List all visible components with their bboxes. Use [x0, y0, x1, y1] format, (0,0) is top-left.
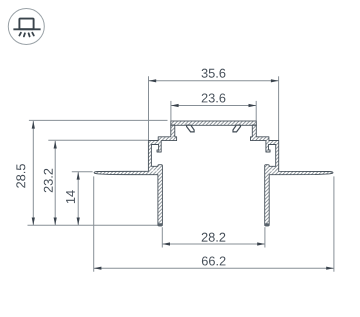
dimension line 23.2: [54, 141, 56, 225]
dimension line 28.2: [162, 243, 265, 245]
extension line 23.6 left: [170, 101, 172, 121]
extension line 66.2 right: [333, 176, 335, 271]
profile LED clip prong right: [233, 125, 241, 132]
label 35.6: [202, 69, 226, 78]
dimension line 28.5: [32, 121, 34, 225]
extension line 28.2 right: [264, 227, 266, 247]
extension line 14 top: [72, 171, 93, 173]
slit between bridge and wing left: [152, 170, 158, 173]
slit between bridge and wing right: [270, 170, 276, 173]
label 23.6: [202, 93, 226, 102]
label 28.2: [202, 233, 226, 242]
profile left half body: [94, 125, 177, 226]
dimension line 66.2: [94, 267, 334, 269]
dimension line 14: [77, 172, 79, 225]
dimension line 23.6: [171, 105, 256, 107]
extension line 23.2 top: [48, 139, 148, 141]
label 14: [66, 190, 75, 203]
label 66.2: [202, 256, 226, 265]
dimension line 35.6: [149, 80, 279, 82]
right leg foot: [265, 223, 270, 226]
icon: recessed luminaire symbol circle: [8, 9, 44, 45]
extension line 23.6 right: [255, 101, 257, 121]
extension line 28.2 left: [161, 227, 163, 247]
left leg foot: [158, 223, 163, 226]
profile top plate: [171, 121, 256, 125]
profile right half body: [251, 125, 334, 226]
extension line bottom shared: [28, 224, 158, 226]
extension line 28.5 top: [29, 119, 168, 121]
profile LED clip prong left: [187, 125, 195, 132]
extension line 35.6 left: [148, 76, 150, 140]
icon: lamp body: [19, 19, 33, 30]
icon: light rays: [19, 33, 33, 37]
extension line 66.2 left: [93, 176, 95, 271]
label 23.2: [44, 169, 53, 193]
extension line 35.6 right: [278, 76, 280, 140]
label 28.5: [16, 164, 25, 188]
icon: ceiling line: [13, 28, 40, 30]
